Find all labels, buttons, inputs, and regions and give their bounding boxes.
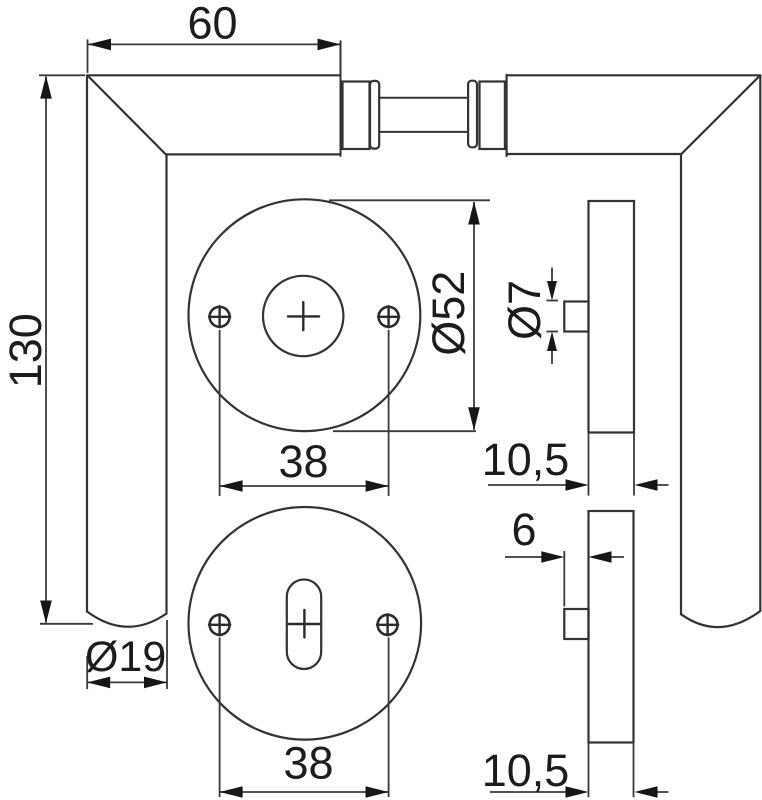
right ring flange [468, 81, 477, 148]
arrow 6 right-pointing [541, 551, 564, 563]
left handle grip right edge [165, 154, 167, 613]
dim 10,5 lower left line [490, 791, 570, 793]
svg-text:38: 38 [278, 436, 328, 487]
rosette 2 side pin [564, 609, 588, 639]
spindle bottom line [379, 131, 468, 133]
rosette 2 right screw [378, 615, 398, 635]
rosette 2 oval keyhole [287, 580, 321, 670]
arrow 60 right [318, 39, 341, 51]
dim O7 upper arrow stem [551, 268, 553, 298]
dim O7 lower tick [547, 331, 559, 333]
svg-text:6: 6 [511, 504, 536, 555]
right handle neck diagonal [681, 76, 760, 154]
arrow 130 down [40, 601, 52, 624]
arrow 38 lower left [220, 786, 243, 798]
dim 130 line [45, 77, 47, 623]
arrow 38 lower right [366, 786, 389, 798]
svg-text:60: 60 [187, 0, 237, 49]
arrow 10,5 upper left [566, 479, 589, 491]
left handle grip left edge [86, 75, 88, 611]
dim 10,5 lower right line [652, 791, 669, 793]
dim 10,5 upper right line [652, 484, 669, 486]
right handle grip bottom cap [681, 611, 760, 627]
dim 38 upper left extension [219, 330, 221, 496]
dim 38 upper line [220, 485, 389, 487]
dim 6 extension [563, 551, 565, 607]
dim 60 line [88, 43, 341, 45]
dim O7 lower arrow stem [551, 335, 553, 364]
dim 38 lower right extension [388, 638, 390, 798]
svg-text:130: 130 [0, 313, 51, 388]
rosette 1 left screw [210, 307, 230, 327]
rosette 2 side view plate [589, 511, 634, 743]
arrow 130 up [40, 76, 52, 99]
right handle grip left edge [680, 154, 682, 614]
svg-text:38: 38 [283, 738, 333, 789]
left handle grip bottom cap [87, 612, 167, 627]
arrow 10,5 upper right [635, 479, 658, 491]
dim 130 top extension [39, 74, 85, 76]
left ring flange [370, 81, 379, 149]
dim 10,5 lower right extension [633, 743, 635, 798]
dim O52 top tangent extension [329, 199, 490, 201]
rosette 2 left screw [210, 615, 230, 635]
dim O52 line [473, 202, 475, 430]
arrow O52 down [468, 407, 480, 430]
left collar [343, 82, 370, 150]
right collar [480, 82, 505, 150]
dim O19 left extension [86, 656, 88, 689]
right handle arm top edge [507, 74, 761, 76]
svg-text:10,5: 10,5 [482, 434, 570, 485]
arrow 38 upper right [366, 480, 389, 492]
arrow 10,5 lower left [566, 786, 589, 798]
dim 10,5 upper left extension [588, 433, 590, 496]
arrow O19 right [144, 677, 167, 689]
dim 10,5 upper right extension [633, 433, 635, 496]
rosette 1 side pin [564, 302, 588, 332]
arrow 60 left [88, 39, 111, 51]
dim 10,5 lower left extension [588, 743, 590, 798]
dim 6 arrow line [505, 556, 545, 558]
left handle arm top edge [87, 74, 341, 76]
arrow 6 left-pointing [589, 551, 612, 563]
spindle top line [379, 97, 468, 99]
dim 38 lower line [220, 791, 389, 793]
left handle neck diagonal [88, 76, 166, 154]
arrow O7 up [547, 332, 557, 352]
arrow O19 left [87, 677, 110, 689]
right handle grip right edge [759, 75, 761, 611]
dim O19 right extension [166, 620, 168, 689]
rosette 2 outer circle [188, 507, 421, 740]
svg-text:10,5: 10,5 [482, 745, 570, 796]
right handle arm end edge [506, 75, 508, 156]
rosette 2 center cross [289, 610, 321, 638]
dim 38 upper right extension [388, 330, 390, 496]
dim 6 right arrow tail [607, 556, 624, 558]
dim 130 bottom tick [40, 623, 93, 625]
arrow 10,5 lower right [635, 786, 658, 798]
arrow 38 upper left [220, 480, 243, 492]
dim O7 upper tick [547, 300, 559, 302]
arrow O52 up [468, 202, 480, 225]
svg-text:Ø52: Ø52 [423, 271, 474, 356]
dim 38 lower left extension [219, 638, 221, 798]
arrow O7 down [547, 281, 557, 301]
left handle arm end edge with 60-dim extension [340, 41, 342, 156]
rosette 1 right screw [379, 307, 399, 327]
svg-text:Ø7: Ø7 [499, 280, 550, 340]
rosette 1 outer circle [189, 199, 421, 431]
dim 60 extension left [87, 39, 89, 73]
right handle arm bottom edge [507, 153, 681, 155]
dim O52 bottom tangent extension [333, 430, 476, 432]
rosette 1 center cross [288, 302, 319, 330]
rosette 1 inner circle [263, 276, 343, 356]
dim O19 line [87, 681, 167, 683]
rosette 1 side view plate [589, 201, 635, 433]
dim 10,5 upper left line [488, 484, 570, 486]
svg-text:Ø19: Ø19 [85, 633, 166, 681]
left handle arm bottom edge [166, 153, 341, 155]
